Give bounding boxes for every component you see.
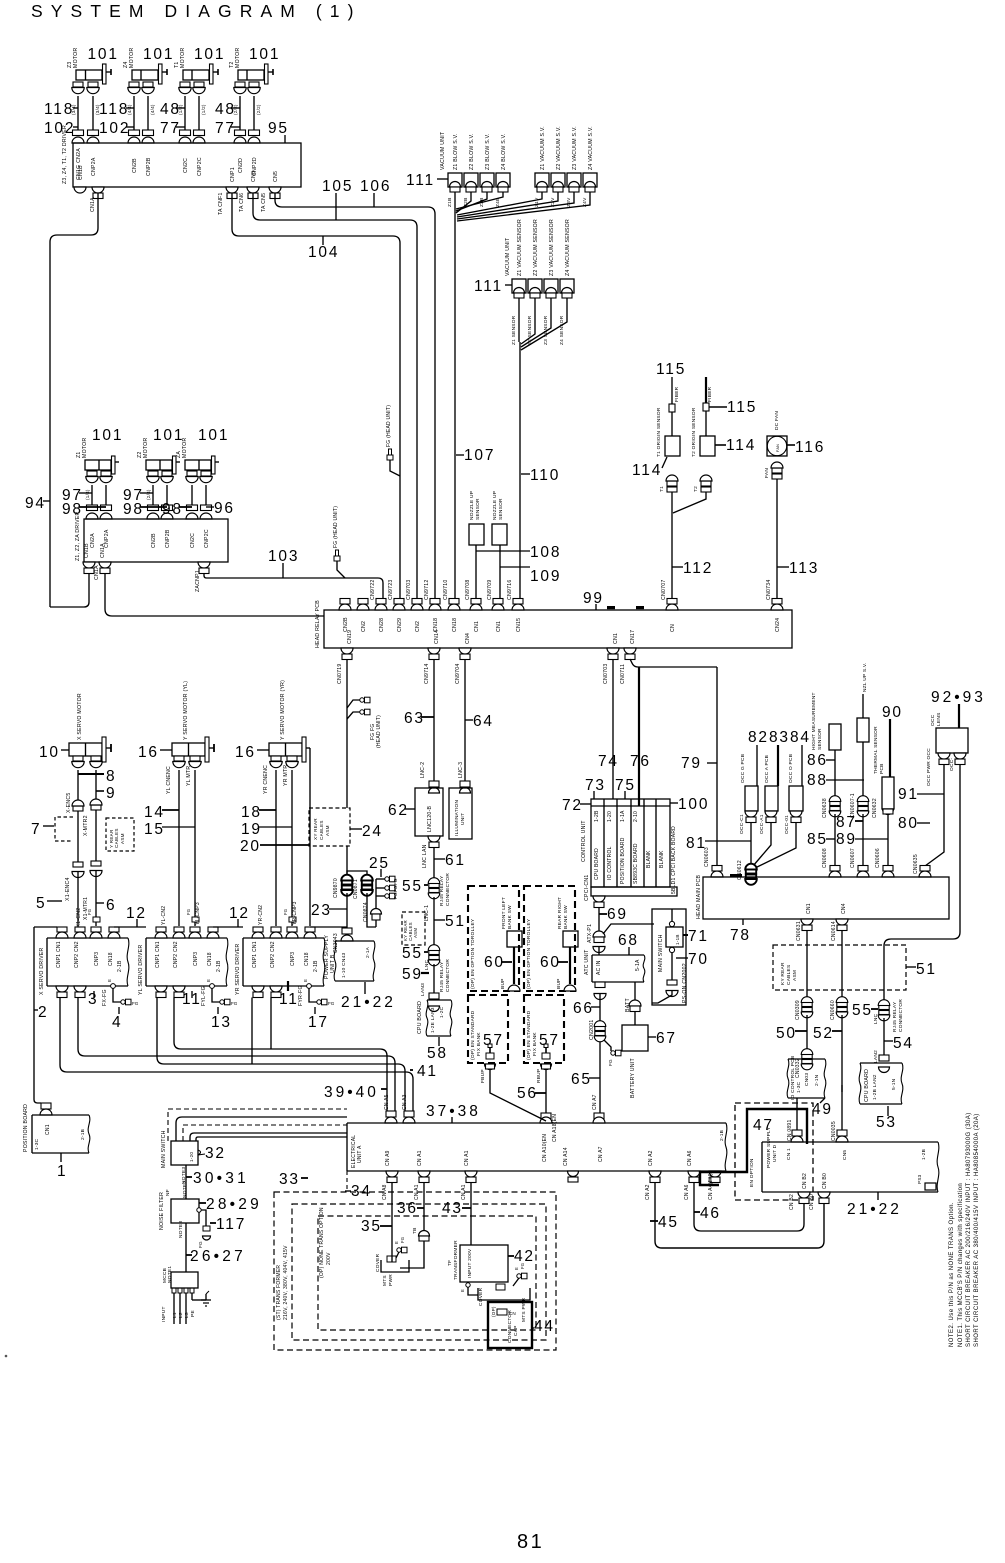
svg-text:24: 24: [362, 823, 383, 840]
svg-text:101: 101: [92, 427, 123, 444]
YR servo motor: [269, 743, 302, 756]
svg-text:53: 53: [876, 1114, 897, 1131]
BATTERY UNIT box: [622, 1025, 648, 1051]
svg-text:15: 15: [144, 821, 165, 838]
svg-text:MOTOR: MOTOR: [73, 48, 79, 68]
ATC UNIT box: [592, 954, 644, 956]
svg-text:CNP1 CN1: CNP1 CN1: [252, 941, 258, 968]
svg-text:ATC UNIT: ATC UNIT: [584, 949, 590, 975]
svg-text:CN2: CN2: [415, 621, 421, 632]
connector LAN2: [879, 1055, 889, 1061]
svg-text:Z3 BLOW S.V.: Z3 BLOW S.V.: [485, 133, 491, 170]
bus feeder YR1: [251, 998, 253, 1065]
svg-text:65: 65: [571, 1071, 592, 1088]
svg-text:COVER: COVER: [478, 1287, 484, 1306]
wire sensor Z4: [521, 298, 567, 350]
connector CN0631: [801, 919, 813, 925]
svg-text:CN A3: CN A3: [402, 1094, 408, 1110]
connector OCC-C1: [745, 811, 757, 817]
svg-text:Z4 SENSOR: Z4 SENSOR: [559, 315, 565, 345]
svg-text:90: 90: [882, 704, 903, 721]
svg-text:CN0631: CN0631: [796, 921, 802, 941]
connector CN2 ZA driver2: [187, 505, 198, 511]
svg-text:SHORT CIRCUIT BREAKER AC 380/4: SHORT CIRCUIT BREAKER AC 380/400/415V IN…: [974, 1113, 980, 1347]
MCCB box: [171, 1272, 198, 1288]
wire CN A1 down (TB): [423, 1182, 425, 1230]
connector CNP2 ZA driver2: [201, 505, 212, 511]
plug mts pwr 2: [496, 1284, 505, 1290]
svg-text:Z4 VACUUM SENSOR: Z4 VACUUM SENSOR: [565, 219, 571, 276]
svg-text:MOTOR: MOTOR: [235, 48, 241, 68]
svg-text:CABLES: CABLES: [319, 820, 324, 840]
svg-text:39•40: 39•40: [324, 1084, 379, 1101]
connector top 3 YR SERVO DRIVER: [287, 927, 297, 932]
svg-text:13: 13: [211, 1014, 232, 1031]
svg-text:COVER: COVER: [375, 1253, 381, 1272]
wire occ a thick: [777, 745, 779, 786]
motor ZA: [185, 460, 211, 470]
svg-text:CN9714: CN9714: [424, 663, 430, 684]
svg-text:MOTOR: MOTOR: [182, 438, 188, 458]
svg-text:RBUP: RBUP: [536, 1069, 542, 1083]
svg-text:UNIT B: UNIT B: [330, 954, 336, 973]
svg-text:TA CN6: TA CN6: [239, 193, 245, 212]
OP EN STANDARD FIX BANK dashed box 2: [524, 995, 564, 1063]
wire T2-a: [239, 96, 241, 130]
KY REAR CABLES ASM dashed box: [773, 945, 906, 990]
switch terminal top: [669, 921, 674, 926]
svg-text:E: E: [206, 979, 211, 982]
wire X enc low: [77, 872, 79, 926]
svg-text:49: 49: [812, 1101, 833, 1118]
svg-text:FG: FG: [328, 1001, 335, 1006]
svg-text:CN0874: CN0874: [363, 902, 369, 922]
svg-text:51: 51: [916, 961, 937, 978]
svg-text:48: 48: [215, 101, 236, 118]
wire CN A9 down: [391, 1182, 393, 1262]
connector CN0614: [836, 919, 848, 925]
svg-text:61: 61: [445, 852, 466, 869]
svg-text:36: 36: [397, 1200, 418, 1217]
main switch enclosure: [652, 909, 686, 1005]
wire 46: [694, 1182, 804, 1231]
connector CN9712: [429, 604, 441, 610]
OCC O PCB: [789, 786, 803, 811]
svg-text:FG (HEAD UNIT): FG (HEAD UNIT): [333, 506, 339, 548]
svg-text:CN4: CN4: [841, 903, 847, 914]
svg-text:EN OPTION: EN OPTION: [749, 1158, 755, 1187]
wire fiber T1: [671, 377, 673, 404]
svg-text:2-1A: 2-1A: [365, 946, 371, 958]
svg-text:NOTE2: NOTE2: [182, 1181, 188, 1198]
svg-text:NOTE2. Use this P/N as NONE TR: NOTE2. Use this P/N as NONE TRANS Option…: [949, 1202, 955, 1347]
svg-text:X-MTR2: X-MTR2: [83, 815, 89, 836]
connector CNP2 bottom YR SERVO DRIVER: [270, 986, 282, 992]
svg-text:E: E: [303, 979, 308, 982]
dashed bundle line 1: [168, 1109, 347, 1141]
wire CN0874 down: [375, 920, 377, 927]
wire CN0309 to CN0332: [806, 1015, 808, 1051]
connector OCC-01: [790, 811, 802, 817]
svg-text:CNP2 CN2: CNP2 CN2: [270, 941, 276, 968]
svg-text:ZACNP1: ZACNP1: [195, 570, 201, 592]
svg-text:CN19: CN19: [347, 630, 353, 644]
OCC G PCB: [745, 786, 758, 811]
connector CN0638: [829, 796, 841, 802]
svg-text:77: 77: [215, 120, 236, 137]
cover bracket 2: [478, 1288, 530, 1300]
svg-text:OCC O PCB: OCC O PCB: [788, 754, 794, 783]
connector top 1 YL SERVO DRIVER: [156, 927, 166, 932]
svg-text:54: 54: [893, 1035, 914, 1052]
svg-text:MOTOR: MOTOR: [143, 438, 149, 458]
svg-text:64: 64: [473, 713, 494, 730]
connector ATC bottom: [595, 982, 605, 988]
svg-text:55: 55: [852, 1002, 873, 1019]
svg-text:AC IN: AC IN: [596, 960, 602, 975]
connector CN4 head relay bottom: [459, 648, 471, 654]
wire vac Z1: [457, 192, 542, 215]
bus wire D: [60, 998, 413, 1112]
svg-text:SYSTEM DIAGRAM (1): SYSTEM DIAGRAM (1): [31, 1, 362, 21]
svg-text:FG: FG: [520, 1263, 525, 1269]
svg-text:1-10 CN43: 1-10 CN43: [341, 952, 347, 978]
svg-text:INPUT 200V: INPUT 200V: [467, 1248, 473, 1278]
wire blow bundle to CN9710: [454, 216, 456, 602]
svg-text:80: 80: [898, 815, 919, 832]
svg-text:CNP2B: CNP2B: [146, 157, 152, 176]
wire CN1 down to opci: [612, 659, 614, 799]
svg-text:96: 96: [214, 500, 235, 517]
svg-text:55: 55: [402, 878, 423, 895]
svg-text:CPU BOARD: CPU BOARD: [864, 1069, 870, 1102]
svg-text:TA CN5: TA CN5: [261, 193, 267, 212]
svg-text:FG: FG: [283, 909, 288, 915]
svg-text:FG: FG: [231, 1001, 238, 1006]
connector CN0035: [837, 1130, 847, 1136]
svg-text:85: 85: [807, 831, 828, 848]
svg-text:99: 99: [583, 590, 604, 607]
connector CN2001: [594, 1021, 606, 1027]
svg-text:37•38: 37•38: [426, 1103, 481, 1120]
wire 93 thick: [958, 704, 960, 728]
svg-text:PCB: PCB: [879, 763, 885, 774]
svg-text:20: 20: [240, 838, 261, 855]
wire hight to CN0608: [834, 814, 836, 866]
svg-text:RJ45 RELAY: RJ45 RELAY: [439, 961, 445, 992]
svg-text:102: 102: [99, 120, 130, 137]
connector CN0707: [666, 604, 678, 610]
connector CN0891: [792, 1130, 802, 1136]
connector plugs X motor: [73, 756, 83, 761]
connector X1-MTR1: [91, 861, 101, 866]
connector ZACNP1: [198, 562, 210, 568]
driver box YL SERVO DRIVER: [146, 937, 227, 939]
svg-text:Z1 BLOW S.V.: Z1 BLOW S.V.: [453, 133, 459, 170]
connector CN2 Z4 on driver: [129, 130, 140, 136]
svg-text:CN B2: CN B2: [802, 1173, 808, 1189]
svg-text:MOTOR: MOTOR: [82, 438, 88, 458]
LNC120-B box: [415, 788, 443, 836]
connector CN A9: [386, 1171, 398, 1177]
svg-text:E: E: [107, 979, 112, 982]
connector CN A1 (43): [465, 1171, 477, 1177]
svg-text:1-3C: 1-3C: [796, 1081, 802, 1093]
svg-text:CN0734: CN0734: [766, 579, 772, 600]
svg-text:CN A1: CN A1: [461, 1184, 467, 1200]
FG plugs 25: [385, 877, 389, 881]
svg-text:FIBER: FIBER: [674, 386, 680, 402]
svg-text:MOTOR: MOTOR: [180, 48, 186, 68]
svg-text:109: 109: [530, 568, 561, 585]
OPCI rack box: [591, 799, 670, 887]
wire nzl to CN0607: [862, 814, 864, 866]
connector CN A7: [594, 1113, 604, 1119]
svg-text:Z1 SENSOR: Z1 SENSOR: [511, 315, 517, 345]
connector FAN plug: [772, 468, 782, 473]
svg-text:45: 45: [658, 1214, 679, 1231]
wire occ lens R: [884, 765, 960, 1002]
svg-text:OCC-: OCC-: [949, 758, 955, 771]
vacuum sensor Z3: [544, 279, 558, 293]
motor Z2: [146, 460, 172, 470]
svg-text:Z3 VACUUM SENSOR: Z3 VACUUM SENSOR: [549, 219, 555, 276]
svg-text:63: 63: [404, 710, 425, 727]
wire bundle c: [196, 1137, 347, 1141]
E FG plug 1: [397, 1248, 401, 1252]
vacuum valve Z3: [567, 173, 581, 187]
svg-text:FG (HEAD UNIT): FG (HEAD UNIT): [386, 405, 392, 447]
connector CN2 Z1 driver2: [87, 505, 98, 511]
hight sensor box: [829, 724, 841, 750]
CPU BOARD box 53: [860, 1062, 902, 1064]
svg-text:28•29: 28•29: [206, 1196, 262, 1213]
E terminal YL SERVO DRIVER: [210, 984, 215, 989]
svg-text:101: 101: [198, 427, 229, 444]
connector CN A18: [541, 1113, 551, 1119]
wire switch bottom: [671, 953, 673, 981]
svg-text:INPUT: INPUT: [161, 1306, 167, 1322]
connector CN0874: [371, 909, 382, 915]
svg-text:25: 25: [369, 855, 390, 872]
CONNECTOR CAP box: [488, 1302, 532, 1348]
svg-text:BUP: BUP: [556, 978, 562, 989]
connector CNP2 bottom X SERVO DRIVER: [74, 986, 86, 992]
svg-text:LNC: LNC: [424, 959, 430, 970]
svg-text:107: 107: [464, 447, 495, 464]
svg-text:2-1N: 2-1N: [814, 1074, 820, 1086]
svg-text:CN2C: CN2C: [190, 533, 196, 548]
svg-text:2: 2: [38, 1004, 48, 1021]
connector top 1 YR SERVO DRIVER: [253, 927, 263, 932]
edge mark 1 head relay: [607, 606, 615, 609]
svg-text:16: 16: [235, 744, 256, 761]
connector top 4 X SERVO DRIVER: [109, 927, 119, 932]
connector FBUP 2: [541, 1064, 552, 1070]
svg-text:CN0309: CN0309: [795, 1000, 801, 1020]
connector CNP2 T2 on driver: [249, 130, 260, 136]
svg-text:LAN2: LAN2: [873, 1050, 879, 1063]
wire hight sensor: [834, 750, 836, 798]
svg-text:83: 83: [769, 729, 790, 746]
connector CN A2: [649, 1171, 661, 1177]
FG plug atc: [611, 1051, 615, 1055]
wire CN1A to left bus: [50, 193, 98, 607]
T2 origin sensor: [700, 436, 715, 456]
connector CN9720: [357, 604, 369, 610]
svg-text:35: 35: [361, 1218, 382, 1235]
svg-text:Z2 VACUUM SENSOR: Z2 VACUUM SENSOR: [533, 219, 539, 276]
svg-text:X SERVO MOTOR: X SERVO MOTOR: [77, 693, 83, 740]
svg-text:NOTE3: NOTE3: [178, 1221, 184, 1238]
svg-text:73: 73: [585, 777, 606, 794]
svg-text:UNIT A: UNIT A: [357, 1145, 363, 1163]
svg-text:CN2C: CN2C: [183, 158, 189, 173]
FG tap YL: [192, 917, 199, 922]
dc fan: [767, 436, 787, 456]
svg-text:OCC-01: OCC-01: [784, 815, 790, 834]
svg-text:ASM: ASM: [120, 833, 125, 844]
connector CN9721: [339, 604, 351, 610]
connector CN14 head relay bottom: [428, 648, 440, 654]
wire CPCI to ATX: [598, 907, 600, 931]
svg-text:CN A18(EN: CN A18(EN: [552, 1114, 558, 1142]
svg-text:RJ45 RELAY: RJ45 RELAY: [892, 1001, 898, 1032]
svg-text:LNC-3: LNC-3: [458, 762, 464, 778]
svg-text:CNP2C: CNP2C: [204, 529, 210, 548]
svg-text:BLANK: BLANK: [646, 850, 652, 868]
svg-text:CN29: CN29: [397, 618, 403, 632]
svg-text:NOZZLE UP: NOZZLE UP: [492, 491, 498, 520]
wire T1-b: [198, 96, 200, 130]
svg-text:CN A4(EN): CN A4(EN): [708, 1173, 714, 1200]
wire blow Z1 down: [454, 192, 456, 216]
wire YR mtr: [291, 770, 293, 917]
tf E terminal: [466, 1283, 470, 1287]
connector CN19 head relay bottom: [341, 648, 353, 654]
svg-text:72: 72: [562, 797, 583, 814]
connector CN1A driver1: [92, 187, 104, 193]
svg-text:CN28: CN28: [379, 618, 385, 632]
svg-text:CONTROL UNIT: CONTROL UNIT: [581, 820, 587, 862]
wire CN9870 chain: [346, 846, 348, 877]
svg-text:102: 102: [44, 120, 75, 137]
svg-text:CONNECTOR: CONNECTOR: [445, 959, 451, 992]
wire T2 fiber to sensor: [705, 411, 707, 436]
connector CNP1 bottom X SERVO DRIVER: [56, 986, 68, 992]
PS3 connector: [925, 1183, 936, 1190]
wire blow Z3: [456, 192, 487, 211]
wire nf to mccb: [185, 1223, 187, 1272]
POWER SUPPLY UNIT B box: [335, 940, 374, 942]
wire to LAN2: [883, 1018, 885, 1055]
OP EN OPTION TOROLLEY dashed box 1: [468, 886, 519, 991]
svg-text:LNC LAN: LNC LAN: [422, 844, 428, 868]
nozzle up sensor 2: [492, 524, 507, 545]
svg-text:106: 106: [360, 178, 391, 195]
connector BUP 2: [564, 985, 576, 991]
svg-text:ILLUMINATION: ILLUMINATION: [454, 799, 460, 836]
svg-text:L2: L2: [178, 1312, 184, 1318]
wire YL mtr: [194, 770, 196, 917]
wire T1 fiber to sensor: [671, 412, 673, 436]
svg-text:70: 70: [688, 951, 709, 968]
svg-text:114: 114: [632, 462, 662, 479]
vacuum valve Z4: [583, 173, 597, 187]
svg-text:CN9703: CN9703: [406, 579, 412, 600]
connector X-MTR2: [91, 805, 101, 810]
svg-text:89: 89: [836, 831, 857, 848]
svg-text:55: 55: [402, 945, 423, 962]
svg-text:BATTERY UNIT: BATTERY UNIT: [630, 1058, 636, 1098]
svg-text:L3: L3: [184, 1312, 190, 1318]
connector CN0606: [882, 871, 894, 877]
svg-text:108: 108: [530, 544, 561, 561]
XY REAR CABLES ASM dashed box right: [309, 808, 350, 846]
svg-text:PS3: PS3: [917, 1174, 922, 1184]
connector CNP1 bottom YL SERVO DRIVER: [155, 986, 167, 992]
svg-text:CN0703: CN0703: [603, 663, 609, 684]
svg-text:FGFGFG: FGFGFG: [393, 878, 398, 899]
OCC A PCB: [765, 786, 778, 811]
svg-text:NOTE1. This MCCB'S P/N changes: NOTE1. This MCCB'S P/N changes with spec…: [958, 1183, 964, 1347]
connector CN B2: [798, 1192, 810, 1198]
wire CN0631 down: [806, 930, 808, 999]
svg-text:CN A2: CN A2: [645, 1184, 651, 1200]
connector position board top: [41, 1103, 51, 1109]
driver box YR SERVO DRIVER: [243, 937, 324, 939]
wire occ-01 diag: [755, 822, 796, 868]
CPU BOARD box 58: [427, 999, 451, 1001]
dashed box ST transformer outer: [274, 1192, 556, 1350]
wire FG taps: [347, 700, 360, 708]
svg-text:MAIN SWITCH: MAIN SWITCH: [161, 1130, 167, 1168]
svg-text:56: 56: [517, 1085, 538, 1102]
svg-text:1-1B: 1-1B: [675, 934, 680, 945]
svg-text:115: 115: [656, 361, 686, 378]
svg-text:42: 42: [514, 1248, 535, 1265]
speck: [5, 1355, 8, 1358]
wire CN6 to CN9703: [253, 193, 417, 602]
svg-text:Y SERVO MOTOR (YR): Y SERVO MOTOR (YR): [280, 680, 286, 740]
svg-text:CN5: CN5: [842, 1150, 848, 1160]
svg-text:17: 17: [308, 1014, 329, 1031]
svg-text:TA CNF1: TA CNF1: [218, 192, 224, 215]
mccb terminals: [172, 1288, 176, 1293]
svg-text:CN18: CN18: [108, 952, 114, 966]
svg-text:74: 74: [598, 753, 619, 770]
wire sensors to CN9716: [519, 342, 521, 602]
connector BATT: [629, 1000, 641, 1006]
svg-text:(OP) EN OPTION TOROLLEY: (OP) EN OPTION TOROLLEY: [526, 918, 532, 989]
wire FBUP diag: [490, 1069, 546, 1121]
svg-text:OCC G PCB: OCC G PCB: [740, 754, 746, 783]
svg-text:L1: L1: [172, 1312, 178, 1318]
vacuum blow valve Z2: [464, 173, 478, 187]
wire Z3-a: [77, 96, 79, 130]
connector occ lens R: [954, 753, 966, 759]
svg-text:59: 59: [402, 966, 423, 983]
wire ATC to CN A7: [599, 994, 601, 1119]
wire vac Z3: [457, 192, 574, 219]
svg-text:CN18: CN18: [304, 952, 310, 966]
svg-text:8: 8: [106, 768, 116, 785]
svg-text:FRONT LEFT: FRONT LEFT: [501, 897, 507, 929]
svg-text:103: 103: [268, 548, 299, 565]
wire nf fg: [201, 1210, 206, 1226]
wire to LAN3: [433, 964, 435, 993]
connector CN9870: [341, 875, 353, 881]
